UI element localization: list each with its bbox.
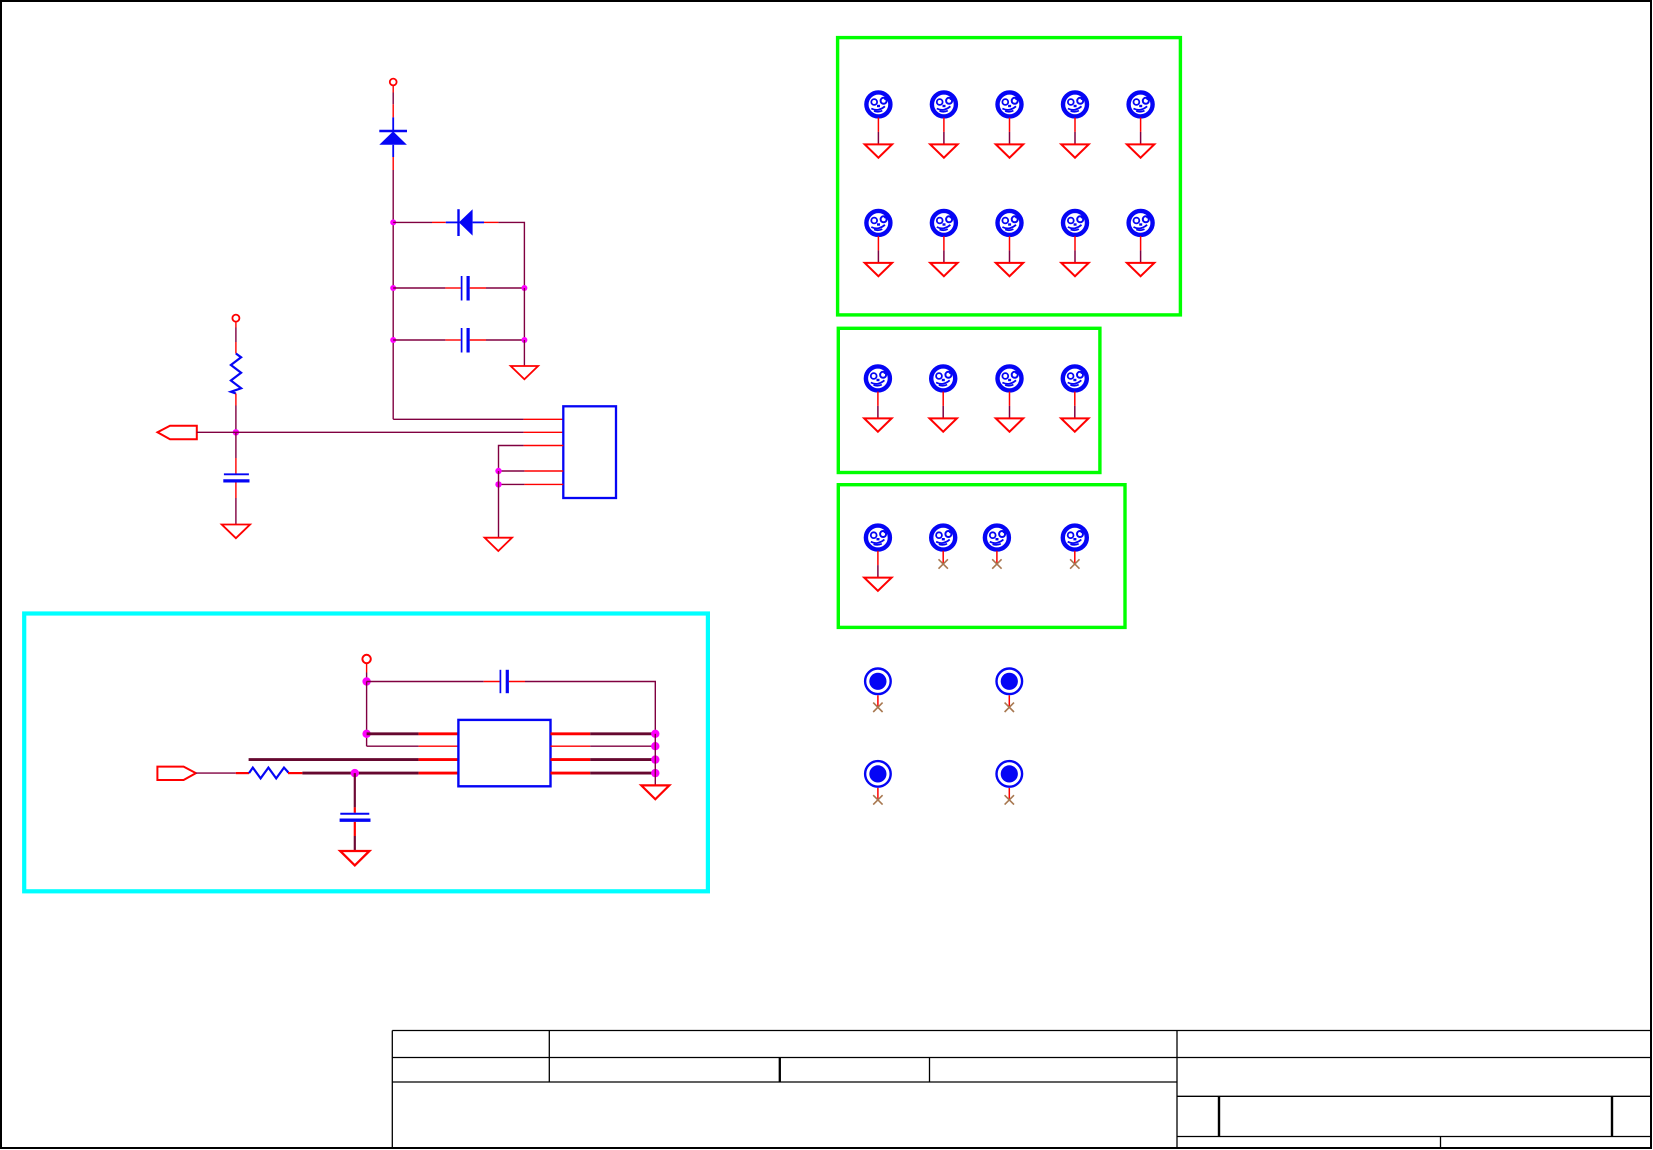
power port P1 (open circle) (390, 79, 397, 86)
wire rail B mid (523, 288, 525, 340)
testpoint TP10 (1127, 211, 1154, 276)
wire A2 to C1 (393, 287, 445, 289)
testpoint TP7 (930, 211, 957, 276)
wire L1 branch to U2 pin2 (367, 745, 459, 747)
testpoint TP3 (996, 92, 1023, 157)
wire J1 to U1 pin2 (236, 431, 563, 433)
wire rail A to U1 pin1 (393, 418, 563, 420)
testpoint TP1 (865, 92, 892, 157)
testpoint TP9 (1061, 211, 1088, 276)
testpoint TP8 (996, 211, 1023, 276)
ground G1 (511, 366, 538, 379)
node junction J1 (233, 429, 239, 435)
wire L1 down (366, 682, 368, 747)
testpoint TP18 (no connect) (1063, 526, 1087, 569)
cyan group box (24, 614, 708, 892)
testpoint TP5 (1127, 92, 1154, 157)
testpoint TP17 (no connect) (985, 526, 1009, 569)
testpoint TP2 (930, 92, 957, 157)
wire J1 to C3 (235, 432, 237, 473)
node junction M2 (651, 742, 659, 750)
testpoint TP11 (864, 366, 891, 431)
node junction L1 (362, 677, 370, 685)
wire R2 to U2 pin4 (thick) (302, 772, 458, 775)
node junction L3 (351, 769, 359, 777)
capacitor C5 (340, 814, 371, 836)
wire rail B to ground (523, 340, 525, 366)
IC U2 (458, 720, 550, 786)
port PT2 (right arrow) (157, 767, 196, 780)
wire P2 to R1 (235, 322, 237, 342)
node junction A3 (390, 337, 396, 343)
fiducial FID4 (997, 761, 1023, 805)
testpoint TP12 (930, 366, 957, 431)
wire R1 to junction (235, 406, 237, 433)
fiducial FID3 (865, 761, 891, 805)
power port P2 (open circle) (232, 315, 239, 322)
node junction A1 (390, 219, 396, 225)
U2 right pin2 (551, 745, 656, 747)
node junction L2 (362, 730, 370, 738)
green group box 1 (838, 38, 1181, 315)
wire A3 to C2 (393, 339, 445, 341)
port PT1 (left arrow) (158, 426, 197, 440)
wire C4 to rail R (525, 682, 655, 734)
node junction K2 (495, 481, 501, 487)
wire PT1 to J1 (197, 431, 236, 433)
capacitor C2 (445, 328, 486, 353)
wire D2 to rail B (498, 222, 524, 288)
node junction M1 (651, 730, 659, 738)
testpoint TP4 (1061, 92, 1088, 157)
wire C3 to ground (235, 498, 237, 525)
U2 right pin4 (thick) (551, 772, 656, 775)
ground G2 (485, 538, 512, 551)
testpoint TP16 (no connect) (931, 526, 955, 569)
power port P3 (open circle) (362, 655, 370, 663)
ground G3 (222, 525, 250, 539)
capacitor C4 (484, 670, 525, 693)
wire PT2 to R2 (196, 772, 236, 774)
node junction A2 (390, 285, 396, 291)
green group box 2 (838, 328, 1100, 472)
wire C2 to rail B (486, 339, 524, 341)
capacitor C1 (445, 276, 486, 301)
ground G5 (340, 851, 369, 865)
wire P1 to D1 (392, 85, 394, 117)
U1 pin3 (499, 446, 564, 472)
capacitor C3 (223, 474, 249, 498)
wire L3 to C5 (354, 773, 356, 813)
wire vertical rail A (392, 170, 394, 419)
IC U1 (563, 406, 616, 498)
green group box 3 (838, 485, 1125, 628)
node junction B1 (521, 285, 527, 291)
wire A1 to D2 (393, 221, 432, 223)
ground G6 (641, 785, 669, 799)
diode D1 (379, 117, 407, 170)
wire C5 to ground (354, 836, 356, 851)
testpoint TP14 (1061, 366, 1088, 431)
resistor R2 (236, 768, 303, 779)
fiducial FID1 (865, 669, 891, 713)
fiducial FID2 (997, 669, 1023, 713)
resistor R1 (231, 342, 241, 406)
node junction B2 (521, 337, 527, 343)
testpoint TP15 (864, 526, 891, 591)
wire K2 to ground (498, 471, 500, 538)
testpoint TP6 (865, 211, 892, 276)
U2 right pin3 (thick) (551, 758, 656, 761)
title block (392, 1031, 1651, 1149)
diode D2 (432, 209, 498, 236)
wire L1 to C4 (367, 681, 484, 683)
wire L2 to U2 pin1 (thick) (367, 732, 459, 735)
node junction M3 (651, 755, 659, 763)
node junction M4 (651, 769, 659, 777)
wire C1 to rail B (486, 287, 524, 289)
wire rail R to ground (654, 734, 656, 785)
U1 pin4 (499, 470, 564, 472)
wire P3 down (366, 663, 368, 681)
node junction K1 (495, 468, 501, 474)
wire stub to U2 pin3 (thick) (249, 758, 459, 761)
U2 right pin1 (thick) (551, 732, 656, 735)
U1 pin5 (499, 483, 564, 485)
testpoint TP13 (996, 366, 1023, 431)
